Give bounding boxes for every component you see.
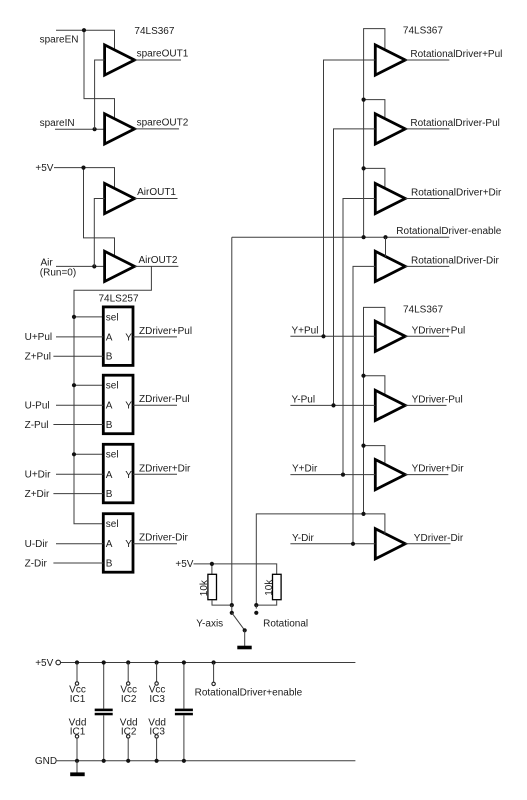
wire YDriver+Pul output	[405, 335, 449, 337]
wire Vcc IC1 stub	[76, 663, 78, 682]
wire RotationalDriver+enable stub	[213, 663, 215, 683]
svg-text:IC2: IC2	[121, 694, 137, 705]
junction Y+Dir	[341, 473, 345, 477]
svg-text:AirOUT2: AirOUT2	[139, 255, 178, 266]
pin Vdd IC1	[75, 735, 78, 738]
buffer YDriver-Pul	[375, 390, 405, 420]
node Z-Dir label	[25, 558, 48, 569]
svg-text:Y: Y	[125, 539, 132, 550]
buffer RotationalDriver-Dir	[375, 251, 405, 281]
junction +5V enable	[81, 166, 85, 170]
junction Air	[92, 264, 96, 268]
node RotationalDriver+Pul label	[410, 49, 502, 60]
svg-text:74LS367: 74LS367	[134, 26, 174, 37]
node ZDriver+Pul label	[139, 326, 192, 337]
svg-text:sel: sel	[106, 519, 119, 530]
IC label 74LS367 (spare buffers)	[134, 26, 174, 37]
svg-text:IC1: IC1	[70, 694, 86, 705]
capacitor C2	[175, 709, 193, 716]
switch contact rotational	[254, 605, 258, 615]
node U-Pul label	[25, 401, 50, 412]
junction capacitor C2 GND	[182, 759, 186, 763]
node Rotational label	[263, 619, 308, 630]
wire resistor to contact	[256, 600, 276, 605]
wire YDriver-Dir output	[405, 543, 450, 545]
svg-text:10k: 10k	[264, 579, 275, 596]
wire RotationalDriver-enable	[232, 236, 449, 238]
svg-text:B: B	[106, 352, 113, 363]
wire resistor to contact	[212, 600, 232, 605]
pin Vcc IC1	[75, 682, 78, 685]
svg-text:spareIN: spareIN	[40, 118, 75, 129]
wire YDriver+Dir output	[405, 474, 448, 476]
svg-text:+5V: +5V	[175, 559, 193, 570]
node Z-Pul label	[25, 420, 49, 431]
pin RotationalDriver+enable	[212, 682, 215, 685]
junction y enable buffer7	[361, 444, 365, 448]
junction enable buffer2	[362, 98, 366, 102]
svg-text:Y: Y	[125, 332, 132, 343]
node Z+Dir label	[25, 489, 50, 500]
junction capacitor C1 GND	[102, 759, 106, 763]
svg-text:RotationalDriver-enable: RotationalDriver-enable	[396, 226, 501, 237]
node Y+Pul label	[292, 325, 319, 336]
mux U2 74LS257 section	[103, 375, 133, 434]
wire Air input	[56, 265, 105, 267]
buffer AirOUT2	[105, 251, 135, 281]
wire ZDriver+Pul output Y	[133, 336, 177, 338]
junction sel mux1	[72, 315, 76, 319]
svg-text:A: A	[106, 470, 113, 481]
svg-text:spareOUT1: spareOUT1	[137, 49, 189, 60]
svg-text:sel: sel	[106, 312, 119, 323]
wire ZDriver-Dir output Y	[133, 543, 177, 545]
wire spareOUT2 output	[135, 128, 179, 130]
wire spareEN to enables	[56, 30, 115, 119]
junction RotationalDriver+enable stub	[212, 660, 216, 664]
svg-text:B: B	[106, 489, 113, 500]
node Y-Pul label	[292, 394, 316, 405]
junction Y-Pul	[331, 403, 335, 407]
buffer YDriver-Dir	[375, 529, 405, 559]
wire rotational enable chain	[364, 29, 385, 238]
junction spareEN	[82, 28, 86, 32]
node spareOUT2 label	[137, 118, 189, 129]
svg-text:+5V: +5V	[35, 658, 53, 669]
node Air label	[40, 258, 76, 279]
buffer YDriver+Pul	[375, 321, 405, 351]
wire spareIN	[55, 128, 105, 130]
wire spareOUT1 output	[135, 59, 181, 61]
svg-text:Y: Y	[125, 401, 132, 412]
junction enable buffer3	[362, 166, 366, 170]
node Z+Pul label	[25, 352, 51, 363]
wire Y+Dir input	[290, 474, 375, 476]
svg-text:Z-Pul: Z-Pul	[25, 420, 49, 431]
resistor 10k (y-axis pullup)	[208, 574, 217, 599]
svg-text:Y-Dir: Y-Dir	[292, 533, 315, 544]
node spareOUT1 label	[137, 49, 189, 60]
resistor 10k (rotational pullup)	[273, 574, 282, 599]
wire Z-Pul input B	[53, 424, 103, 426]
node Vdd IC2 label	[120, 717, 138, 737]
capacitor C1 top lead	[103, 663, 105, 709]
wire GND rail	[57, 760, 356, 762]
wire Y+Pul to Rot+Pul input	[324, 60, 376, 336]
wire AirOUT2 to mux selects	[74, 266, 151, 523]
svg-text:ZDriver-Dir: ZDriver-Dir	[139, 533, 189, 544]
wire Z+Dir input B	[53, 493, 103, 495]
pin Vdd IC2	[127, 735, 130, 738]
svg-text:+5V: +5V	[35, 163, 53, 174]
junction Y-Dir	[351, 542, 355, 546]
switch blade	[232, 613, 247, 633]
node RotationalDriver+enable label	[195, 687, 303, 698]
junction Vdd IC2 on GND rail	[126, 759, 130, 763]
junction y-axis contact top	[230, 603, 234, 607]
svg-text:Y+Pul: Y+Pul	[292, 325, 319, 336]
node Y-axis label	[196, 619, 223, 630]
svg-text:RotationalDriver-Pul: RotationalDriver-Pul	[410, 118, 499, 129]
junction Vcc IC3 on +5V rail	[155, 660, 159, 664]
mux U3 74LS257 section	[103, 444, 133, 503]
wire Air to AirOUT1 input	[94, 199, 104, 267]
svg-text:sel: sel	[106, 381, 119, 392]
wire YDriver-Pul output	[405, 404, 446, 406]
svg-text:GND: GND	[35, 756, 57, 767]
junction capacitor C2 +5V	[182, 660, 186, 664]
node Y+Dir label	[292, 464, 318, 475]
capacitor C1	[95, 709, 113, 716]
node Vcc IC3 label	[149, 685, 166, 705]
buffer RotationalDriver+Pul	[375, 45, 405, 75]
svg-text:Y+Dir: Y+Dir	[292, 464, 318, 475]
buffer RotationalDriver-Pul	[375, 114, 405, 144]
node RotationalDriver+Dir label	[411, 187, 502, 198]
svg-text:RotationalDriver+Dir: RotationalDriver+Dir	[411, 187, 502, 198]
node YDriver-Pul label	[412, 394, 463, 405]
node spareEN label	[40, 35, 79, 46]
svg-text:RotationalDriver+Pul: RotationalDriver+Pul	[410, 49, 502, 60]
node ZDriver+Dir label	[139, 463, 191, 474]
wire y enable chain	[364, 307, 385, 514]
junction Vcc IC1 on +5V rail	[75, 660, 79, 664]
svg-text:U-Dir: U-Dir	[25, 539, 49, 550]
node AirOUT2 label	[139, 255, 178, 266]
node Vdd IC1 label	[69, 717, 87, 737]
junction y enable buffer6	[361, 374, 365, 378]
node Vcc IC2 label	[120, 685, 137, 705]
power +5V label (switch)	[175, 559, 193, 570]
node spareIN label	[40, 118, 75, 129]
junction sel mux3	[72, 452, 76, 456]
svg-text:AirOUT1: AirOUT1	[137, 187, 176, 198]
junction buffer4 enable tap	[383, 235, 387, 239]
svg-text:74LS367: 74LS367	[403, 25, 443, 36]
svg-text:10k: 10k	[199, 579, 210, 596]
junction spareIN	[93, 127, 97, 131]
IC label 74LS367 (y buffers)	[403, 305, 443, 316]
wire Z-Dir input B	[53, 562, 103, 564]
wire spareIN to buffer1 input	[95, 60, 105, 129]
wire RotationalDriver+Pul output	[405, 59, 449, 61]
wire Y-Pul to Rot-Pul input	[334, 129, 376, 406]
node Y-Dir label	[292, 533, 315, 544]
wire Vcc IC3 stub	[156, 663, 158, 682]
node RotationalDriver-enable label	[396, 226, 501, 237]
svg-text:Z-Dir: Z-Dir	[25, 558, 48, 569]
svg-text:A: A	[106, 332, 113, 343]
wire Vdd IC2 stub	[127, 738, 129, 761]
IC label 74LS257	[99, 293, 139, 304]
svg-text:A: A	[106, 539, 113, 550]
wire U+Pul input A	[56, 336, 103, 338]
node ZDriver-Dir label	[139, 533, 189, 544]
svg-text:RotationalDriver+enable: RotationalDriver+enable	[195, 687, 303, 698]
wire blade to ground	[244, 630, 246, 646]
capacitor C2 bottom lead	[183, 715, 185, 761]
svg-text:Y-Pul: Y-Pul	[292, 394, 316, 405]
wire Vcc IC2 stub	[127, 663, 129, 682]
pin Vcc IC2	[127, 682, 130, 685]
wire ZDriver+Dir output Y	[133, 473, 177, 475]
junction pullup	[210, 562, 214, 566]
wire +5V rail	[61, 662, 356, 664]
svg-text:ZDriver-Pul: ZDriver-Pul	[139, 394, 190, 405]
power +5V terminal label	[35, 658, 53, 669]
svg-text:YDriver-Pul: YDriver-Pul	[412, 394, 463, 405]
junction Y+Pul	[321, 334, 325, 338]
svg-text:sel: sel	[106, 450, 119, 461]
pin Vcc IC3	[155, 682, 158, 685]
junction Vdd IC1 on GND rail	[75, 759, 79, 763]
wire Vdd IC1 stub	[76, 738, 78, 761]
svg-text:YDriver+Pul: YDriver+Pul	[412, 325, 466, 336]
buffer AirOUT1	[105, 183, 135, 213]
node Vdd IC3 label	[148, 717, 166, 737]
wire Y+Pul input	[290, 335, 375, 337]
switch contact y-axis	[230, 605, 234, 615]
node RotationalDriver-Pul label	[410, 118, 499, 129]
svg-text:Z+Dir: Z+Dir	[25, 489, 50, 500]
IC label 74LS367 (rotational buffers)	[403, 25, 443, 36]
capacitor C2 top lead	[183, 663, 185, 709]
svg-text:YDriver+Dir: YDriver+Dir	[412, 464, 465, 475]
svg-text:U+Pul: U+Pul	[25, 332, 53, 343]
capacitor C1 bottom lead	[103, 715, 105, 761]
svg-text:Z+Pul: Z+Pul	[25, 352, 51, 363]
svg-text:IC3: IC3	[149, 694, 165, 705]
svg-text:U+Dir: U+Dir	[25, 470, 52, 481]
ground (GND rail)	[70, 761, 85, 776]
buffer RotationalDriver+Dir	[375, 183, 405, 213]
svg-text:YDriver-Dir: YDriver-Dir	[414, 533, 464, 544]
svg-text:Rotational: Rotational	[263, 619, 308, 630]
node YDriver+Pul label	[412, 325, 466, 336]
wire Y-Dir input	[290, 543, 375, 545]
node AirOUT1 label	[137, 187, 176, 198]
svg-text:74LS367: 74LS367	[403, 305, 443, 316]
svg-text:ZDriver+Pul: ZDriver+Pul	[139, 326, 192, 337]
node ZDriver-Pul label	[139, 394, 190, 405]
wire Y-Pul input	[290, 404, 375, 406]
node RotationalDriver-Dir label	[411, 255, 499, 266]
wire RotationalDriver+Dir output	[405, 198, 449, 200]
resistor value 10k	[199, 579, 210, 596]
mux U4 74LS257 section	[103, 514, 133, 573]
pin Vdd IC3	[155, 735, 158, 738]
junction capacitor C1 +5V	[102, 660, 106, 664]
svg-text:A: A	[106, 401, 113, 412]
wire U-Pul input A	[56, 404, 103, 406]
junction Vcc IC2 on +5V rail	[126, 660, 130, 664]
svg-text:B: B	[106, 559, 113, 570]
svg-text:ZDriver+Dir: ZDriver+Dir	[139, 463, 191, 474]
wire Y-Dir to Rot-Dir input	[353, 266, 375, 543]
wire U+Dir input A	[56, 473, 103, 475]
node U+Pul label	[25, 332, 53, 343]
svg-text:U-Pul: U-Pul	[25, 401, 50, 412]
wire Y+Dir to Rot+Dir input	[343, 199, 375, 475]
terminal +5V	[56, 660, 61, 665]
junction y enable on switch feed	[361, 512, 365, 516]
svg-text:RotationalDriver-Dir: RotationalDriver-Dir	[411, 255, 499, 266]
wire Z+Pul input B	[53, 355, 103, 357]
node YDriver+Dir label	[412, 464, 465, 475]
svg-text:spareEN: spareEN	[40, 35, 79, 46]
wire U-Dir input A	[56, 543, 103, 545]
svg-text:Y: Y	[125, 470, 132, 481]
junction Vdd IC3 on GND rail	[155, 759, 159, 763]
wire +5V pullup rail	[194, 564, 277, 574]
junction sel mux2	[72, 383, 76, 387]
node U+Dir label	[25, 470, 52, 481]
wire AirOUT2 output	[135, 265, 179, 267]
node U-Dir label	[25, 539, 49, 550]
resistor value 10k	[264, 579, 275, 596]
wire AirOUT1 output	[135, 198, 178, 200]
wire enable line to Rot-Dir buffer	[385, 237, 387, 257]
wire +5V to enables	[54, 168, 115, 257]
wire y-axis switch feed	[256, 514, 385, 605]
svg-text:74LS257: 74LS257	[99, 293, 139, 304]
wire ZDriver-Pul output Y	[133, 404, 177, 406]
svg-text:B: B	[106, 420, 113, 431]
node Vcc IC1 label	[69, 685, 86, 705]
junction enable chain on enable line	[362, 235, 366, 239]
mux U1 74LS257 section	[103, 307, 133, 366]
svg-text:(Run=0): (Run=0)	[40, 267, 76, 278]
wire Vdd IC3 stub	[156, 738, 158, 761]
buffer spareOUT2	[105, 114, 135, 144]
buffer spareOUT1	[105, 45, 135, 75]
node GND label	[35, 756, 57, 767]
power +5V label (air buffers)	[35, 163, 53, 174]
svg-text:spareOUT2: spareOUT2	[137, 118, 189, 129]
buffer YDriver+Dir	[375, 460, 405, 490]
wire RotationalDriver-Dir output	[405, 265, 449, 267]
wire rotational switch feed	[231, 237, 233, 605]
node YDriver-Dir label	[414, 533, 464, 544]
ground (switch common)	[237, 646, 251, 650]
svg-text:Y-axis: Y-axis	[196, 619, 223, 630]
junction rotational contact top	[254, 603, 258, 607]
wire RotationalDriver-Pul output	[405, 128, 449, 130]
